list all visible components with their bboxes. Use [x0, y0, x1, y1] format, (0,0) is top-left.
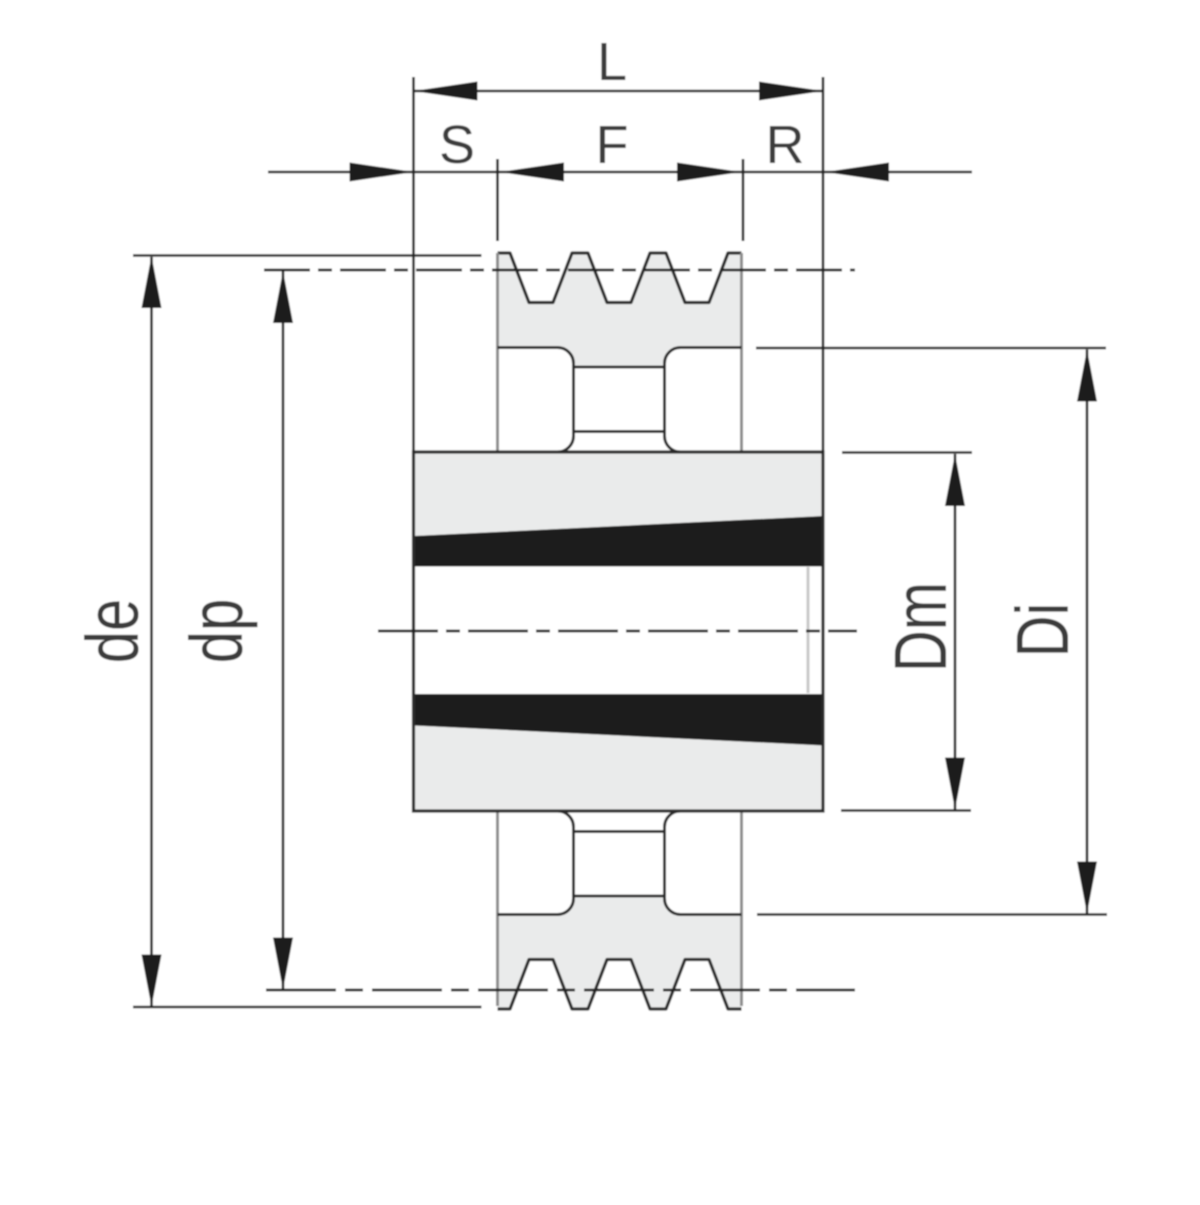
- Di dimension line: [1086, 350, 1089, 914]
- taper bush lower black wedge: [414, 694, 824, 746]
- hub lower gray wedge: [414, 726, 824, 812]
- pulley rim top (grooved) gray body: [498, 253, 742, 367]
- Dm dimension line: [954, 454, 957, 810]
- Dm extension bottom: [841, 809, 971, 812]
- rim top left vertical edge: [496, 253, 499, 452]
- rim top right vertical edge: [740, 253, 743, 452]
- rim bottom right vertical edge: [740, 811, 743, 1006]
- svg-text:de: de: [72, 599, 154, 664]
- F tick right: [742, 159, 745, 241]
- Dm arrow down: [945, 758, 965, 810]
- SFR dimension line: [268, 171, 972, 174]
- web pocket bottom-right outline: [665, 811, 742, 915]
- web plate top lines: [574, 366, 665, 369]
- taper bush upper black wedge: [414, 516, 824, 567]
- F arrow left: [500, 163, 564, 182]
- rim bottom teeth outline: [498, 960, 742, 1010]
- Di extension bottom: [757, 913, 1107, 916]
- rim bottom left vertical edge: [496, 811, 499, 1006]
- svg-text:Di: Di: [1002, 603, 1084, 658]
- L dimension line: [414, 90, 824, 93]
- web pocket bottom-left outline: [498, 811, 574, 915]
- F arrow right: [677, 163, 741, 182]
- pitch dash-dot line bottom: [266, 989, 855, 992]
- centerline axis dash-dot: [378, 630, 857, 633]
- L arrow left: [414, 82, 478, 101]
- svg-text:S: S: [439, 115, 475, 175]
- hub outline: [414, 452, 824, 811]
- R outside arrow: [825, 163, 889, 182]
- web pocket top-right outline: [665, 348, 742, 453]
- Di arrow down: [1077, 862, 1097, 914]
- svg-text:dp: dp: [176, 599, 258, 664]
- svg-text:R: R: [766, 115, 805, 175]
- web pocket top-left outline: [498, 348, 574, 453]
- Di extension top: [756, 347, 1106, 350]
- L arrow right: [759, 82, 823, 101]
- L dimension extension line left: [412, 77, 415, 452]
- pulley rim bottom (grooved) gray body: [498, 896, 742, 1009]
- svg-text:Dm: Dm: [880, 582, 962, 672]
- de arrow down: [142, 955, 162, 1007]
- bush slit faint line: [807, 567, 810, 693]
- de dimension extension bottom: [133, 1006, 482, 1009]
- rim top teeth outline: [498, 253, 742, 303]
- S outside arrow: [350, 163, 414, 182]
- svg-text:L: L: [597, 32, 627, 92]
- pitch dash-dot line top: [264, 269, 855, 272]
- dp dimension line: [282, 271, 285, 990]
- svg-text:F: F: [596, 115, 629, 175]
- de arrow up: [142, 256, 162, 308]
- Dm arrow up: [945, 454, 965, 506]
- F tick left: [496, 159, 499, 241]
- dp arrow up: [273, 271, 293, 323]
- Dm extension top: [842, 451, 972, 454]
- L dimension extension line right: [822, 77, 825, 452]
- dp arrow down: [273, 938, 293, 990]
- hub upper gray wedge: [414, 452, 824, 536]
- web plate bottom lines: [574, 830, 665, 833]
- de dimension extension top: [133, 254, 482, 257]
- de dimension line: [150, 257, 153, 1006]
- Di arrow up: [1077, 350, 1097, 402]
